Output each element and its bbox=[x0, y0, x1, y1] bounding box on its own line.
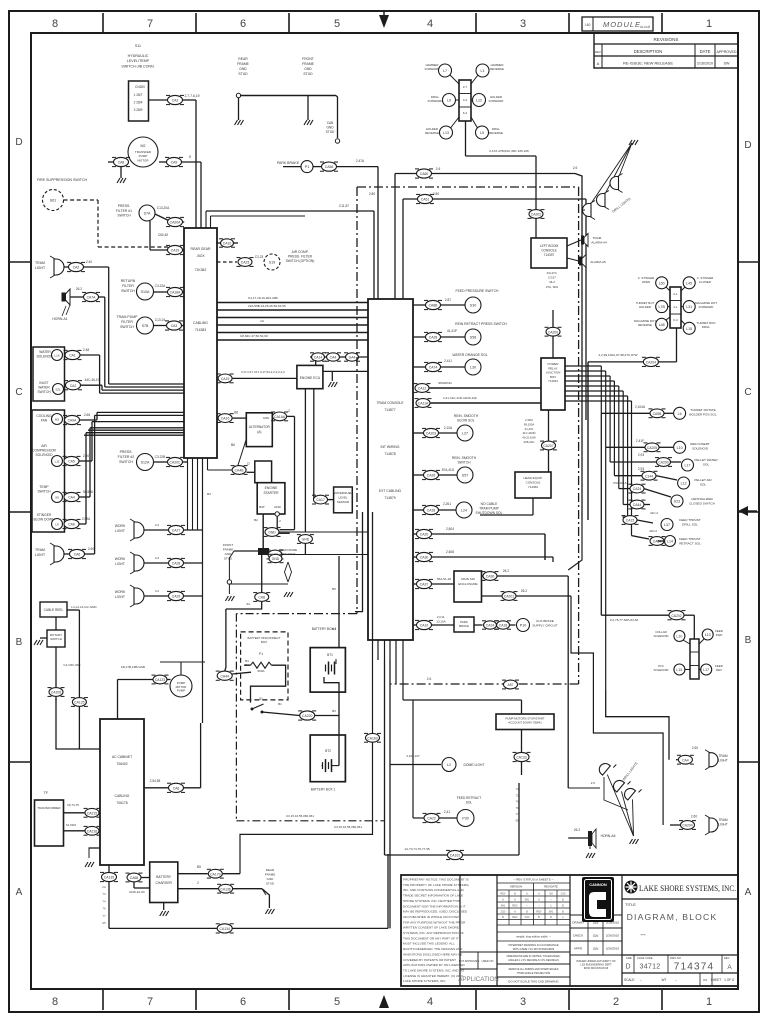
svg-text:HORN-A6: HORN-A6 bbox=[601, 834, 616, 838]
svg-text:B5: B5 bbox=[332, 587, 336, 591]
svg-text:74: 74 bbox=[102, 899, 106, 903]
revisions table bbox=[594, 33, 738, 68]
wire relay box top bbox=[552, 327, 554, 358]
svg-text:PARK BRAKE: PARK BRAKE bbox=[277, 161, 300, 165]
svg-text:--: -- bbox=[675, 978, 677, 982]
svg-text:REAR: REAR bbox=[266, 868, 275, 872]
cooling fan box bbox=[32, 410, 65, 532]
water fuel level sensor bbox=[313, 389, 315, 500]
svg-text:L1: L1 bbox=[481, 69, 485, 73]
svg-text:INC. AND CONTAINS CONFIDENTIAL: INC. AND CONTAINS CONFIDENTIAL AND bbox=[403, 888, 464, 892]
svg-text:95: 95 bbox=[515, 819, 519, 823]
svg-text:714877: 714877 bbox=[384, 408, 395, 412]
svg-text:22A,55B,24,25,26,59,63,56: 22A,55B,24,25,26,59,63,56 bbox=[248, 304, 286, 308]
svg-text:TRANSFORMER: TRANSFORMER bbox=[37, 806, 61, 810]
svg-text:REV: REV bbox=[595, 50, 601, 54]
lamp L1 hammer reverse bbox=[476, 64, 489, 77]
svg-text:C144: C144 bbox=[645, 474, 653, 478]
svg-text:CA10: CA10 bbox=[223, 242, 232, 246]
svg-text:PRESS. FILTER: PRESS. FILTER bbox=[288, 255, 313, 259]
svg-text:WORK: WORK bbox=[115, 557, 126, 561]
lamp stinger open bbox=[656, 277, 668, 289]
lamp magazine rot forward bbox=[683, 301, 695, 313]
svg-text:FILTER: FILTER bbox=[121, 320, 133, 324]
dash-dot battery bus bbox=[235, 614, 237, 821]
svg-text:2,41J: 2,41J bbox=[444, 359, 452, 363]
svg-text:LEVEL/TEMP: LEVEL/TEMP bbox=[127, 59, 150, 63]
svg-text:REVISIONS: REVISIONS bbox=[653, 37, 678, 42]
svg-text:OR PUBLISHED IN WHOLE OR IN PA: OR PUBLISHED IN WHOLE OR IN PART bbox=[403, 915, 461, 919]
svg-text:TRAM: TRAM bbox=[35, 261, 45, 265]
svg-text:P30: P30 bbox=[462, 817, 468, 821]
svg-text:US: US bbox=[703, 978, 707, 982]
svg-text:CENTRALIZER: CENTRALIZER bbox=[691, 497, 713, 501]
water solenoid box bbox=[33, 347, 65, 401]
svg-text:CA4: CA4 bbox=[330, 356, 337, 360]
svg-text:S19: S19 bbox=[269, 261, 275, 265]
connector CA1 water sol bbox=[65, 350, 80, 359]
rein retract press switch row bbox=[413, 336, 426, 338]
svg-text:TRAM: TRAM bbox=[718, 818, 727, 822]
svg-text:OPEN: OPEN bbox=[642, 280, 650, 284]
svg-text:41,41P: 41,41P bbox=[447, 329, 457, 333]
wire lights cluster down bbox=[465, 121, 467, 156]
wire block1 right top bbox=[206, 210, 305, 212]
svg-text:REAR: REAR bbox=[238, 57, 248, 61]
svg-text:B2: B2 bbox=[254, 518, 258, 522]
svg-text:-BOX: -BOX bbox=[196, 254, 205, 258]
svg-text:71K382: 71K382 bbox=[195, 268, 207, 272]
svg-text:CA207: CA207 bbox=[543, 444, 553, 448]
block2 bottom stubs bbox=[372, 640, 374, 660]
svg-text:SOL: SOL bbox=[700, 482, 706, 486]
svg-text:L31: L31 bbox=[686, 305, 692, 309]
block engine ecu bbox=[297, 365, 323, 388]
title block application column bbox=[496, 875, 498, 986]
svg-text:WITH ASME Y14.100 STANDARDS: WITH ASME Y14.100 STANDARDS bbox=[513, 947, 555, 951]
svg-text:L13: L13 bbox=[443, 131, 449, 135]
svg-text:D: D bbox=[744, 140, 751, 151]
svg-text:REIN. SMOOTH: REIN. SMOOTH bbox=[454, 414, 479, 418]
svg-text:-- REV STATUS of SHEETS --: -- REV STATUS of SHEETS -- bbox=[513, 878, 553, 882]
svg-text:AIR: AIR bbox=[41, 444, 47, 448]
svg-text:SWITCH: SWITCH bbox=[117, 214, 131, 218]
connector CA20A bbox=[168, 217, 183, 226]
svg-text:CA18: CA18 bbox=[427, 509, 436, 513]
engine ecu wires top bbox=[310, 356, 368, 358]
svg-text:COVERED BY PATENTS OR PATENT: COVERED BY PATENTS OR PATENT bbox=[403, 958, 456, 962]
svg-text:CA204: CA204 bbox=[646, 361, 656, 365]
svg-text:CA2: CA2 bbox=[70, 384, 77, 388]
svg-text:GND: GND bbox=[274, 505, 282, 509]
svg-text:A: A bbox=[597, 61, 600, 66]
dashed wire S61 bbox=[64, 199, 99, 201]
svg-text:DOME LIGHT: DOME LIGHT bbox=[463, 763, 484, 767]
svg-text:SOL: SOL bbox=[703, 462, 709, 466]
wire CA3 to bus bbox=[183, 99, 197, 101]
svg-text:LAKE SHORE SYSTEMS, INC.: LAKE SHORE SYSTEMS, INC. bbox=[639, 883, 736, 893]
svg-text:L45: L45 bbox=[686, 281, 692, 285]
svg-text:L17: L17 bbox=[703, 668, 709, 672]
svg-text:2.40: 2.40 bbox=[86, 260, 92, 264]
svg-text:2/26/2010: 2/26/2010 bbox=[606, 947, 620, 951]
tram light D zone bbox=[54, 259, 64, 275]
svg-text:L30: L30 bbox=[470, 366, 476, 370]
svg-text:TRAM PUMP: TRAM PUMP bbox=[479, 507, 500, 511]
svg-text:DOCUMENT NOR THE INFORMATION I: DOCUMENT NOR THE INFORMATION IN IT bbox=[403, 904, 465, 908]
svg-text:2.60: 2.60 bbox=[691, 815, 697, 819]
svg-text:2/10: 2/10 bbox=[525, 916, 530, 919]
svg-text:8: 8 bbox=[52, 18, 58, 30]
svg-text:S10A: S10A bbox=[141, 290, 150, 294]
svg-text:2,2,99,100A,97,98,47C,87W: 2,2,99,100A,97,98,47C,87W bbox=[598, 353, 637, 357]
svg-text:600A: 600A bbox=[257, 669, 264, 673]
svg-text:DATE: DATE bbox=[700, 49, 711, 54]
connector CA3B bbox=[167, 321, 182, 330]
svg-text:HYDRAULIC: HYDRAULIC bbox=[128, 54, 149, 58]
svg-text:CA123: CA123 bbox=[155, 678, 165, 682]
svg-text:6: 6 bbox=[240, 18, 246, 30]
svg-text:PUMP: PUMP bbox=[177, 689, 185, 693]
svg-text:77: 77 bbox=[102, 914, 106, 918]
svg-text:2,261: 2,261 bbox=[443, 502, 451, 506]
svg-text:SOL: SOL bbox=[466, 801, 473, 805]
connector CA2B inlet water bbox=[66, 381, 81, 390]
svg-text:714360: 714360 bbox=[528, 485, 538, 489]
svg-text:CA28: CA28 bbox=[172, 562, 181, 566]
svg-text:L27: L27 bbox=[462, 432, 468, 436]
svg-text:WRITTEN CONSENT OF LAKE SHORE: WRITTEN CONSENT OF LAKE SHORE bbox=[403, 926, 459, 930]
dashed row air comp press bbox=[217, 261, 237, 263]
p2c solenoid lamp bbox=[674, 664, 685, 675]
svg-text:C1,C6C,66F: C1,C6C,66F bbox=[63, 663, 80, 667]
wire M2 to bus bbox=[182, 161, 202, 163]
svg-text:3: 3 bbox=[520, 18, 526, 30]
svg-text:TEMP: TEMP bbox=[39, 485, 49, 489]
block AC cabinet 706402 bbox=[100, 719, 144, 865]
svg-text:C3.23: C3.23 bbox=[255, 255, 264, 259]
rein insert solenoid row bbox=[606, 446, 645, 448]
svg-text:L12: L12 bbox=[681, 482, 687, 486]
connector CA5 air comp bbox=[64, 456, 79, 465]
svg-text:TRAM: TRAM bbox=[718, 754, 727, 758]
svg-text:1 28/7: 1 28/7 bbox=[134, 93, 143, 97]
wire starter left bbox=[232, 466, 246, 475]
svg-text:C3.22A: C3.22A bbox=[155, 284, 167, 288]
svg-text:AC CABINET: AC CABINET bbox=[112, 755, 132, 759]
svg-text:FORWARD: FORWARD bbox=[428, 99, 443, 103]
svg-text:FEED PRESSURE SWITCH: FEED PRESSURE SWITCH bbox=[456, 289, 500, 293]
svg-text:REV/DATE: REV/DATE bbox=[544, 885, 558, 889]
feed pressure switch row bbox=[413, 304, 426, 306]
svg-text:EXT CABLING: EXT CABLING bbox=[379, 489, 402, 493]
svg-text:TURRET ROTATE: TURRET ROTATE bbox=[690, 408, 715, 412]
svg-text:FEED RETRACT: FEED RETRACT bbox=[457, 796, 481, 800]
svg-text:DIMENSIONS ARE IN INCHES. TOLE: DIMENSIONS ARE IN INCHES. TOLERANCES: bbox=[507, 955, 561, 958]
svg-text:FRONT: FRONT bbox=[223, 543, 233, 547]
svg-text:--: -- bbox=[538, 905, 540, 908]
svg-text:73: 73 bbox=[102, 892, 106, 896]
svg-text:CA8B: CA8B bbox=[429, 304, 439, 308]
svg-text:CABLING: CABLING bbox=[115, 794, 130, 798]
svg-text:2/16/2010: 2/16/2010 bbox=[697, 62, 713, 66]
svg-text:WT: WT bbox=[662, 978, 667, 982]
svg-text:L14: L14 bbox=[667, 540, 673, 544]
svg-text:CA134: CA134 bbox=[220, 927, 230, 931]
svg-text:2.48: 2.48 bbox=[83, 348, 89, 352]
svg-text:CHARGER: CHARGER bbox=[155, 881, 172, 885]
svg-text:DRAWN: DRAWN bbox=[572, 921, 583, 925]
block power relay junction box bbox=[541, 358, 565, 410]
svg-text:ALARM-A5: ALARM-A5 bbox=[590, 260, 606, 264]
lamp L9 drill forward bbox=[443, 94, 456, 107]
svg-text:L17: L17 bbox=[685, 464, 691, 468]
svg-text:TO LAKE SHORE SYSTEMS, INC. AN: TO LAKE SHORE SYSTEMS, INC. AND NO bbox=[403, 968, 465, 972]
svg-text:C3,15,16,55,060,061: C3,15,16,55,060,061 bbox=[334, 825, 362, 829]
svg-text:L24: L24 bbox=[461, 509, 467, 513]
svg-text:714374: 714374 bbox=[674, 962, 715, 973]
svg-text:C8,84C,47,50,52,60: C8,84C,47,50,52,60 bbox=[240, 334, 268, 338]
wire 2.6 to drill lights bbox=[395, 173, 575, 175]
title block notes text bbox=[459, 875, 461, 986]
svg-text:INVENTIONS DISCLOSED HERE MAY: INVENTIONS DISCLOSED HERE MAY BE bbox=[403, 952, 462, 956]
lamp turret rot holder bbox=[656, 301, 668, 313]
svg-text:CA30: CA30 bbox=[486, 575, 495, 579]
svg-text:S23: S23 bbox=[674, 500, 680, 504]
svg-text:WATER: WATER bbox=[38, 385, 50, 389]
svg-text:--: -- bbox=[640, 930, 646, 939]
svg-text:2 28/4: 2 28/4 bbox=[134, 101, 143, 105]
svg-text:714043: 714043 bbox=[548, 379, 558, 383]
svg-text:CA44: CA44 bbox=[220, 674, 229, 678]
svg-text:L2: L2 bbox=[447, 763, 451, 767]
svg-text:CA202: CA202 bbox=[671, 614, 681, 618]
svg-text:LIGHT: LIGHT bbox=[35, 553, 46, 557]
svg-text:GND: GND bbox=[326, 126, 334, 130]
wire relay box bottom bbox=[548, 410, 550, 441]
svg-text:GND: GND bbox=[302, 538, 310, 542]
svg-text:61,59/2: 61,59/2 bbox=[66, 823, 76, 827]
svg-text:26.2: 26.2 bbox=[521, 589, 527, 593]
lamp magazine rot reverse bbox=[656, 318, 668, 330]
svg-text:1A,73,74,76,77,95: 1A,73,74,76,77,95 bbox=[404, 847, 430, 851]
svg-text:MUST INCLUDE THIS LEGEND. ALL: MUST INCLUDE THIS LEGEND. ALL bbox=[403, 942, 455, 946]
svg-text:4-2: 4-2 bbox=[463, 98, 468, 102]
svg-text:CA24: CA24 bbox=[633, 487, 642, 491]
svg-text:2.47A: 2.47A bbox=[356, 159, 365, 163]
svg-text:IRON MOUNTAIN MI: IRON MOUNTAIN MI bbox=[584, 966, 609, 970]
svg-text:S30: S30 bbox=[470, 304, 476, 308]
svg-text:REVERSE: REVERSE bbox=[425, 131, 439, 135]
svg-text:2,604: 2,604 bbox=[446, 527, 454, 531]
svg-text:41B,44C: 41B,44C bbox=[524, 440, 535, 444]
svg-text:SWITCH-JIB CONN.: SWITCH-JIB CONN. bbox=[121, 64, 154, 68]
rein smooth blow sol row bbox=[413, 432, 424, 434]
svg-text:714878: 714878 bbox=[384, 452, 395, 456]
svg-text:REVERSE: REVERSE bbox=[638, 323, 652, 327]
svg-text:DO NOT SCALE THIS CAD DRAWING: DO NOT SCALE THIS CAD DRAWING bbox=[508, 980, 559, 984]
svg-text:TRADE SECRET INFORMATION OF LA: TRADE SECRET INFORMATION OF LAKE bbox=[403, 894, 463, 898]
svg-text:2,10A: 2,10A bbox=[444, 426, 453, 430]
svg-text:B1: B1 bbox=[278, 702, 282, 706]
svg-text:S9: S9 bbox=[55, 496, 59, 500]
svg-text:34712: 34712 bbox=[640, 964, 661, 971]
svg-text:2/10: 2/10 bbox=[501, 911, 506, 914]
svg-text:CA5: CA5 bbox=[68, 460, 75, 464]
svg-text:BOLDER POS SOL: BOLDER POS SOL bbox=[689, 412, 716, 416]
wire S1 to CA220 bbox=[262, 712, 300, 716]
svg-text:CANNON: CANNON bbox=[589, 882, 607, 887]
svg-text:C3.22B: C3.22B bbox=[155, 455, 166, 459]
svg-text:CA37: CA37 bbox=[420, 583, 429, 587]
svg-text:CA60: CA60 bbox=[420, 172, 429, 176]
tram light bottom right 1 bbox=[606, 690, 669, 760]
svg-text:ENGINE: ENGINE bbox=[265, 486, 278, 490]
svg-text:4/0,47C,: 4/0,47C, bbox=[547, 271, 558, 275]
svg-text:CA16A: CA16A bbox=[274, 415, 285, 419]
svg-text:LIGHT: LIGHT bbox=[115, 595, 125, 599]
svg-text:P10: P10 bbox=[520, 624, 526, 628]
svg-text:DWG NO: DWG NO bbox=[670, 956, 681, 960]
svg-text:DIAGRAM, BLOCK: DIAGRAM, BLOCK bbox=[627, 912, 718, 922]
svg-text:GND: GND bbox=[304, 67, 312, 71]
svg-text:1B,17B,19B,GND: 1B,17B,19B,GND bbox=[121, 665, 146, 669]
svg-text:CLOSED SWITCH: CLOSED SWITCH bbox=[689, 501, 715, 505]
svg-text:2.6: 2.6 bbox=[436, 167, 441, 171]
wire water sol bbox=[80, 354, 100, 356]
svg-text:CABLING: CABLING bbox=[193, 321, 208, 325]
svg-text:FIRE SUPPRESSION SWITCH: FIRE SUPPRESSION SWITCH bbox=[37, 178, 88, 182]
svg-text:8: 8 bbox=[52, 996, 58, 1008]
TF gnd stub bbox=[89, 847, 101, 849]
lake shore banner bbox=[622, 898, 738, 900]
wire horn to bus bbox=[99, 296, 105, 298]
zone ticks top bbox=[102, 13, 104, 33]
svg-text:A: A bbox=[16, 887, 23, 898]
svg-text:FEED THRUST: FEED THRUST bbox=[679, 537, 701, 541]
wire pump motors top bbox=[521, 700, 523, 714]
battery box 2 wires bbox=[338, 556, 340, 648]
svg-text:L37: L37 bbox=[664, 523, 670, 527]
svg-text:AUX BRAKE: AUX BRAKE bbox=[536, 619, 554, 623]
svg-text:6: 6 bbox=[240, 996, 246, 1008]
svg-text:REAR GEAR: REAR GEAR bbox=[191, 247, 212, 251]
svg-text:FAN: FAN bbox=[41, 418, 48, 422]
svg-text:GND: GND bbox=[267, 877, 275, 881]
svg-text:2,41,41C,41D,41DD,41F: 2,41,41C,41D,41DD,41F bbox=[443, 396, 477, 400]
lamp L7 hammer forward bbox=[439, 64, 452, 77]
svg-text:GND: GND bbox=[272, 557, 280, 561]
svg-text:BATTERY: BATTERY bbox=[156, 875, 172, 879]
svg-text:BATTERY BOX 1: BATTERY BOX 1 bbox=[311, 788, 336, 792]
svg-text:L7B: L7B bbox=[658, 305, 665, 309]
svg-text:L6: L6 bbox=[678, 412, 682, 416]
drill lights bottom cluster bbox=[597, 761, 610, 775]
svg-text:BOX: BOX bbox=[261, 640, 267, 644]
svg-text:2,93: 2,93 bbox=[638, 467, 644, 471]
cable reel box bbox=[40, 602, 67, 617]
lights junction box top bbox=[459, 80, 471, 121]
svg-text:SWITCH (OPTION): SWITCH (OPTION) bbox=[286, 259, 315, 263]
svg-text:CA20A: CA20A bbox=[170, 221, 181, 225]
svg-text:CA200: CA200 bbox=[658, 461, 668, 465]
block rear gear box 71K382 bbox=[184, 228, 217, 458]
svg-text:CA68: CA68 bbox=[130, 876, 139, 880]
svg-text:RETRACT SOL: RETRACT SOL bbox=[679, 541, 701, 545]
center arrow bottom bbox=[379, 995, 389, 1008]
svg-text:2A: 2A bbox=[102, 885, 106, 889]
pellet air sol row bbox=[614, 475, 641, 477]
stinger junction box bbox=[670, 287, 681, 328]
svg-text:CA15: CA15 bbox=[626, 519, 635, 523]
svg-text:TRAM: TRAM bbox=[593, 236, 602, 240]
battery disconnect box bbox=[241, 632, 288, 700]
svg-text:B: B bbox=[745, 635, 752, 646]
svg-text:REV: REV bbox=[536, 911, 541, 914]
svg-text:CA17: CA17 bbox=[316, 498, 325, 502]
wire cooling fan bbox=[80, 419, 98, 421]
svg-text:2/10: 2/10 bbox=[561, 893, 566, 896]
svg-text:SPARING: SPARING bbox=[438, 381, 452, 385]
title block signature rows bbox=[621, 875, 623, 986]
svg-text:72: 72 bbox=[515, 793, 519, 797]
wire rotary down bbox=[55, 647, 57, 700]
svg-text:USED ON: USED ON bbox=[482, 959, 494, 963]
svg-text:S21: S21 bbox=[55, 388, 61, 392]
connector CA102 bottom bus bbox=[448, 850, 463, 859]
main sw enclosure row bbox=[413, 583, 417, 585]
svg-text:AIR COMP.: AIR COMP. bbox=[292, 250, 309, 254]
svg-text:C: C bbox=[15, 387, 22, 398]
svg-text:CA12: CA12 bbox=[418, 387, 427, 391]
connector CA123 pump bbox=[153, 675, 167, 684]
svg-text:76: 76 bbox=[515, 806, 519, 810]
svg-text:TITLE: TITLE bbox=[625, 902, 636, 907]
svg-text:7: 7 bbox=[147, 18, 153, 30]
svg-text:46.2: 46.2 bbox=[549, 280, 555, 284]
svg-text:SWITCH: SWITCH bbox=[119, 460, 133, 464]
svg-text:PELLET AIR: PELLET AIR bbox=[694, 478, 712, 482]
svg-text:ISSUED UNDER AUTHORITY OF: ISSUED UNDER AUTHORITY OF bbox=[576, 959, 616, 963]
svg-text:2,2,76,77,SPA,63,62: 2,2,76,77,SPA,63,62 bbox=[610, 618, 639, 622]
svg-text:L15: L15 bbox=[676, 668, 682, 672]
zone ticks sides bbox=[9, 261, 31, 263]
svg-text:B6: B6 bbox=[231, 443, 235, 447]
turret rotate bolder pos sol row bbox=[601, 412, 649, 414]
svg-text:2-7: 2-7 bbox=[463, 85, 468, 89]
zone ticks bottom bbox=[102, 989, 104, 1010]
svg-text:SENSOR: SENSOR bbox=[337, 500, 349, 504]
svg-text:95: 95 bbox=[102, 921, 106, 925]
bundle block1 to block2 bbox=[217, 302, 368, 304]
svg-text:LIGHT: LIGHT bbox=[115, 562, 125, 566]
svg-text:REIN. SMOOTH: REIN. SMOOTH bbox=[452, 456, 477, 460]
connector CA20C bbox=[168, 457, 183, 466]
wire gnd bus bbox=[240, 95, 336, 97]
svg-text:706402: 706402 bbox=[116, 762, 127, 766]
svg-text:714383: 714383 bbox=[195, 328, 206, 332]
wire air comp bbox=[79, 460, 92, 462]
svg-text:WATER: WATER bbox=[39, 350, 51, 354]
no cable tram pump shutdown row bbox=[413, 509, 424, 511]
svg-text:CA125: CA125 bbox=[74, 701, 84, 705]
svg-text:CA102: CA102 bbox=[450, 854, 460, 858]
bundle into block1 left bbox=[109, 383, 184, 385]
revision arrow right border bbox=[738, 506, 748, 516]
svg-text:L10: L10 bbox=[676, 635, 682, 639]
block tram console 714877 bbox=[368, 299, 413, 640]
wire 2.608 row bbox=[413, 556, 417, 558]
